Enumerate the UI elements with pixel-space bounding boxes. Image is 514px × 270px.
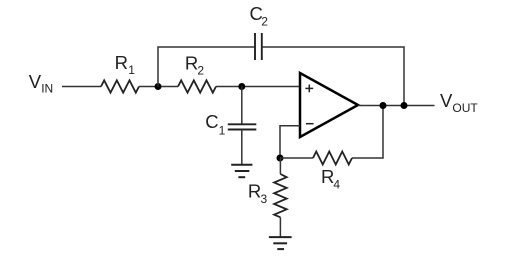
svg-text:IN: IN [41,81,53,95]
wire R1 to R2 [139,86,178,88]
svg-text:1: 1 [219,124,226,138]
op-amp U1 [300,73,358,137]
resistor R4 [313,152,352,165]
node B junction at C1 top [238,83,245,90]
wire node C to R4 [280,157,313,159]
wire op-amp - input to node C [280,126,300,158]
ground under R3 [269,237,292,249]
node A junction after R1 [155,83,162,90]
resistor R3 [274,174,287,217]
svg-text:2: 2 [197,63,204,77]
wire C1 top lead [241,87,243,125]
node D output junction to R4 [380,102,387,109]
wire R3 to ground [279,217,281,237]
svg-text:OUT: OUT [452,101,478,115]
wire node C to R3 [279,158,281,174]
wire op-amp output [358,105,435,107]
wire R2 to op-amp + input [216,86,300,88]
svg-text:1: 1 [128,63,135,77]
svg-text:2: 2 [261,15,268,29]
svg-text:R: R [185,52,198,73]
resistor R1 [101,80,139,92]
svg-text:C: C [205,111,218,132]
capacitor C1 [228,124,256,129]
node E output junction to C2 [401,102,408,109]
ground under C1 [231,165,252,178]
op-amp - pin mark [306,123,314,125]
wire C2 to output node [262,47,404,106]
capacitor C2 [255,33,262,60]
svg-text:V: V [440,90,453,111]
wire R4 to output [352,106,383,159]
svg-text:3: 3 [261,192,268,206]
wire C1 bottom lead [241,130,243,165]
wire feedback loop top [158,47,255,87]
svg-text:R: R [115,52,128,73]
svg-text:R: R [248,180,261,201]
op-amp + pin mark [305,85,313,93]
svg-text:R: R [321,166,334,187]
node C inverting junction [277,155,284,162]
resistor R2 [178,80,216,92]
wire V_IN lead [62,86,101,88]
svg-text:V: V [29,71,42,92]
svg-text:4: 4 [333,178,340,192]
